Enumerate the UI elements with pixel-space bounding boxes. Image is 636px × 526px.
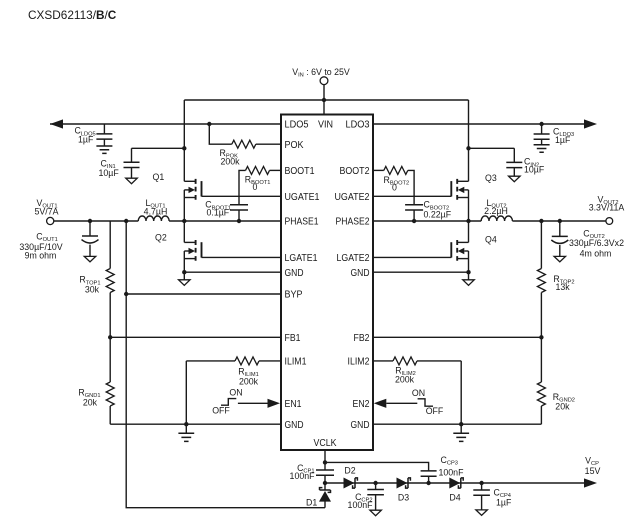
wire GND1 line right <box>373 271 469 273</box>
wire R_ILIM1 to GND leg <box>186 361 235 424</box>
svg-text:Q2: Q2 <box>155 233 167 243</box>
wire LGATE1 lead <box>202 256 282 258</box>
wire FB1 <box>110 336 281 338</box>
svg-text:CXSD62113/B/C: CXSD62113/B/C <box>28 8 117 22</box>
svg-text:EN1: EN1 <box>285 399 302 410</box>
switch EN2 step symbol <box>418 399 433 406</box>
wire LDO3 rail <box>373 123 585 125</box>
wire UGATE2 lead <box>373 195 451 197</box>
junction FB1 node <box>108 335 112 339</box>
capacitor C_IN1 <box>124 162 140 167</box>
wire R_GND1 to GND line <box>109 406 111 424</box>
wire R_TOP2 to FB2 node <box>540 293 542 338</box>
arrow LDO5 rail left <box>50 119 63 128</box>
svg-text:LDO5: LDO5 <box>285 120 309 131</box>
capacitor C_CP3 <box>421 471 437 476</box>
wire D1 cathode up <box>324 483 326 490</box>
resistor R_TOP1 <box>106 269 114 293</box>
svg-text:D2: D2 <box>344 466 355 476</box>
wire VCLK to C_CP3 top <box>325 462 429 471</box>
wire D1 anode down <box>324 502 326 508</box>
svg-text:ON: ON <box>412 388 425 398</box>
wire C_CP4 lead <box>481 483 483 510</box>
junction R_POK on LDO5 rail <box>207 122 211 126</box>
junction R_TOP2 tap <box>539 219 543 223</box>
resistor R_BOOT2 <box>384 166 408 174</box>
capacitor C_CP1 <box>316 470 334 475</box>
svg-text:VIN: VIN <box>318 120 333 131</box>
wire C_OUT2 lead <box>559 221 561 256</box>
wire R_ILIM2 to GND leg <box>417 361 461 424</box>
svg-text:LGATE1: LGATE1 <box>285 253 318 264</box>
wire LGATE2 lead <box>373 256 451 258</box>
capacitor C_IN2 <box>506 162 522 167</box>
svg-text:1µF: 1µF <box>496 498 512 508</box>
diode D1 <box>319 488 331 502</box>
junction C_OUT2 tap <box>558 219 562 223</box>
capacitor C_OUT1 <box>82 236 99 243</box>
svg-text:ON: ON <box>229 388 242 398</box>
svg-text:20k: 20k <box>555 401 570 411</box>
capacitor C_OUT2 <box>551 236 568 243</box>
junction C_CP4 tap <box>479 481 483 485</box>
svg-text:9m ohm: 9m ohm <box>25 251 57 261</box>
wire C_CP3 lead <box>428 477 430 484</box>
wire R_TOP1 to FB1 node <box>109 293 111 338</box>
svg-text:Q4: Q4 <box>485 235 497 245</box>
transistor Q4 <box>451 240 468 261</box>
resistor R_GND1 <box>106 382 114 406</box>
wire FB2 <box>373 336 541 338</box>
junction GND bottom-left <box>184 422 188 426</box>
svg-text:10µF: 10µF <box>99 168 120 178</box>
svg-text:0.22µF: 0.22µF <box>424 209 452 219</box>
ground bottom-right <box>453 433 469 441</box>
wire BYP <box>126 293 281 295</box>
wire BOOT1 stub <box>270 169 282 171</box>
wire EN2 arrow line <box>386 402 417 404</box>
wire C_CP2 lead <box>375 483 377 510</box>
junction BYP node <box>124 292 128 296</box>
wire R_BOOT1 to C_BOOT1 <box>239 170 246 221</box>
junction C_IN2 tap <box>466 146 470 150</box>
svg-text:ILIM1: ILIM1 <box>285 357 307 368</box>
svg-text:EN2: EN2 <box>353 399 370 410</box>
junction Q1-Q2 phase node <box>182 219 186 223</box>
wire GND line bottom-right <box>373 423 541 425</box>
terminal VIN <box>320 77 328 85</box>
junction Q4 source GND <box>466 270 470 274</box>
svg-text:FB1: FB1 <box>285 333 301 344</box>
resistor R_ILIM1 <box>235 357 259 365</box>
wire GND line bottom-left <box>110 423 281 425</box>
svg-text:0: 0 <box>253 182 258 192</box>
wire C_CP1 to pump rail <box>324 475 326 483</box>
arrow LDO3 rail right <box>584 119 597 128</box>
junction Q2 source GND <box>182 270 186 274</box>
diode D3 <box>397 478 411 489</box>
inductor L_OUT1 <box>138 216 169 221</box>
wire V_OUT2 line <box>512 220 605 222</box>
junction VCLK to C_CP3 link <box>323 460 327 464</box>
resistor R_GND2 <box>537 382 545 406</box>
svg-text:UGATE1: UGATE1 <box>285 192 320 203</box>
wire Q2 source to GND <box>183 251 185 280</box>
wire ILIM2 stub <box>373 360 393 362</box>
wire R_GND1 upper <box>109 337 111 382</box>
terminal V_OUT2 <box>606 218 613 225</box>
wire Q2 drain <box>183 221 185 242</box>
wire LDO5 rail <box>50 123 281 125</box>
wire V_OUT1 to D1 anode (vertical) <box>126 221 325 508</box>
ground Q4 source <box>463 280 475 286</box>
junction C_CP3 tap <box>426 481 430 485</box>
wire GND symbol stub right <box>460 424 462 433</box>
svg-text:2.2µH: 2.2µH <box>484 206 508 216</box>
junction C_OUT1 tap <box>88 219 92 223</box>
svg-text:PHASE2: PHASE2 <box>336 217 370 228</box>
svg-text:15V: 15V <box>585 466 601 476</box>
svg-text:1µF: 1µF <box>555 135 571 145</box>
junction GND bottom-right <box>459 422 463 426</box>
wire top VIN rail <box>184 99 468 101</box>
wire C_IN2 branch <box>469 148 515 176</box>
arrow into EN2 <box>374 399 387 408</box>
capacitor C_BOOT2 <box>405 205 423 210</box>
svg-text:OFF: OFF <box>426 406 444 416</box>
wire GND1 line left <box>184 271 281 273</box>
wire VIN left leg <box>183 100 185 181</box>
junction C_LDO3 tap <box>539 122 543 126</box>
svg-text:Q1: Q1 <box>153 172 165 182</box>
ground bottom-left <box>178 433 194 441</box>
wire Q3 source to PHASE2 <box>468 190 470 221</box>
svg-text:4.7µH: 4.7µH <box>144 206 168 216</box>
svg-text:D3: D3 <box>398 493 409 503</box>
transistor Q1 <box>184 179 201 200</box>
svg-text:200k: 200k <box>239 376 259 386</box>
svg-text:0: 0 <box>392 182 397 192</box>
wire VCLK down <box>324 450 326 470</box>
wire PHASE1 <box>169 220 281 222</box>
junction C_IN1 tap <box>182 146 186 150</box>
wire BOOT2 stub <box>373 169 384 171</box>
svg-text:OFF: OFF <box>212 406 230 416</box>
wire C_LDO3 lead <box>541 124 543 145</box>
wire ILIM1 stub <box>259 360 281 362</box>
ground C_LDO3 <box>534 145 550 152</box>
wire C_LDO5 lead <box>103 124 105 146</box>
junction C_CP2 tap <box>373 481 377 485</box>
svg-text:BOOT1: BOOT1 <box>285 166 315 177</box>
svg-text:GND: GND <box>285 268 304 279</box>
wire Q4 drain <box>468 221 470 242</box>
ground C_IN1 <box>126 178 138 184</box>
wire UGATE1 lead <box>202 195 282 197</box>
switch EN1 step symbol <box>221 399 236 406</box>
transistor Q3 <box>451 179 468 200</box>
resistor R_BOOT1 <box>246 166 270 174</box>
svg-text:FB2: FB2 <box>354 333 370 344</box>
svg-text:200k: 200k <box>395 374 415 384</box>
resistor R_TOP2 <box>537 269 545 293</box>
svg-text:10µF: 10µF <box>524 165 545 175</box>
arrow into EN1 <box>268 399 281 408</box>
wire R_BOOT2 to C_BOOT2 <box>408 170 414 221</box>
resistor R_POK <box>232 140 256 148</box>
wire R_TOP2 upper <box>540 221 542 269</box>
inductor L_OUT2 <box>481 216 512 221</box>
diode D4 <box>449 478 463 489</box>
svg-text:PHASE1: PHASE1 <box>285 217 319 228</box>
wire EN1 arrow line <box>238 402 268 404</box>
svg-text:ILIM2: ILIM2 <box>348 357 370 368</box>
svg-text:4m ohm: 4m ohm <box>580 248 612 258</box>
capacitor C_LDO5 <box>96 134 112 139</box>
terminal V_OUT1 <box>47 217 54 224</box>
svg-text:3.3V/11A: 3.3V/11A <box>589 203 625 213</box>
svg-text:POK: POK <box>285 140 304 151</box>
ground C_IN2 <box>509 176 521 182</box>
wire PHASE2 <box>373 220 481 222</box>
svg-text:330µF/6.3Vx2: 330µF/6.3Vx2 <box>569 238 624 248</box>
ground C_OUT2 <box>554 256 566 262</box>
resistor R_ILIM2 <box>393 357 417 365</box>
ground C_LDO5 <box>96 146 112 153</box>
svg-text:100nF: 100nF <box>348 500 374 510</box>
svg-text:200k: 200k <box>221 157 241 167</box>
svg-text:LDO3: LDO3 <box>346 120 370 131</box>
junction VIN rail <box>322 98 326 102</box>
svg-text:BOOT2: BOOT2 <box>340 166 370 177</box>
capacitor C_CP2 <box>367 490 384 495</box>
arrow V_CP output <box>584 478 597 487</box>
svg-text:VCLK: VCLK <box>314 438 337 449</box>
svg-text:LGATE2: LGATE2 <box>337 253 370 264</box>
junction pump rail at C_CP1 <box>323 481 327 485</box>
ground C_OUT1 <box>84 256 96 262</box>
ground C_CP2 <box>370 510 382 516</box>
wire R_GND2 upper <box>540 337 542 382</box>
svg-text:BYP: BYP <box>285 290 303 301</box>
op-amp U1 CXSD62113 IC body <box>281 115 373 451</box>
wire charge pump rail <box>325 482 585 484</box>
ground C_CP4 <box>476 510 488 516</box>
wire Q1 source to PHASE1 <box>183 190 185 221</box>
svg-text:100nF: 100nF <box>290 471 316 481</box>
wire GND symbol stub left <box>185 424 187 433</box>
svg-text:D4: D4 <box>449 493 460 503</box>
svg-text:D1: D1 <box>306 498 317 508</box>
diode D2 <box>344 478 358 489</box>
svg-text:13k: 13k <box>556 282 571 292</box>
svg-text:30k: 30k <box>85 285 100 295</box>
capacitor C_LDO3 <box>534 134 550 139</box>
svg-text:GND: GND <box>351 268 370 279</box>
wire R_POK to POK pin <box>256 143 281 145</box>
junction FB2 node <box>539 335 543 339</box>
wire C_IN1 branch <box>132 148 185 178</box>
svg-text:20k: 20k <box>83 398 98 408</box>
capacitor C_BOOT1 <box>230 205 248 210</box>
wire Q4 source to GND <box>468 251 470 280</box>
junction C_BOOT2 on PHASE2 <box>412 219 416 223</box>
svg-text:UGATE2: UGATE2 <box>335 192 370 203</box>
svg-text:1µF: 1µF <box>78 135 94 145</box>
wire R_TOP1 upper <box>109 221 111 269</box>
wire V_OUT1 line <box>54 220 139 222</box>
junction Q3-Q4 phase node <box>466 219 470 223</box>
svg-text:0.1µF: 0.1µF <box>207 208 230 218</box>
svg-text:5V/7A: 5V/7A <box>35 207 59 217</box>
svg-text:Q3: Q3 <box>485 173 497 183</box>
ground Q2 source <box>179 280 191 286</box>
svg-text:GND: GND <box>351 420 370 431</box>
svg-text:100nF: 100nF <box>439 467 465 477</box>
wire C_OUT1 lead <box>89 221 91 256</box>
junction C_BOOT1 on PHASE1 <box>237 219 241 223</box>
wire VIN right leg <box>468 100 470 181</box>
capacitor C_CP4 <box>473 490 490 495</box>
wire R_POK left leg <box>209 124 232 144</box>
junction BYP tap on V_OUT1 <box>124 219 128 223</box>
transistor Q2 <box>184 240 201 261</box>
wire R_GND2 to GND line <box>540 406 542 424</box>
wire VIN terminal to rail and VIN pin <box>323 85 325 115</box>
svg-text:GND: GND <box>285 420 304 431</box>
